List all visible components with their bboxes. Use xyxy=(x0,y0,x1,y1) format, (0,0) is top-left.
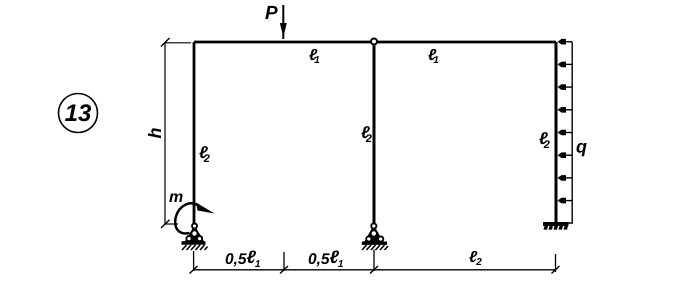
dim witness under P xyxy=(283,252,285,271)
moment m arc xyxy=(175,203,214,234)
svg-text:0,5ℓ1: 0,5ℓ1 xyxy=(225,247,261,270)
dimension h line xyxy=(164,42,166,224)
svg-text:h: h xyxy=(145,128,165,139)
svg-text:q: q xyxy=(576,137,587,157)
node label 13 circle xyxy=(59,94,98,133)
svg-text:P: P xyxy=(265,3,278,24)
dim tick top xyxy=(161,38,170,47)
load arrow 3 xyxy=(558,84,573,90)
load arrow 2 xyxy=(558,62,573,68)
dim slash right xyxy=(552,266,560,274)
force P arrow xyxy=(280,5,287,39)
column right xyxy=(555,42,558,223)
support right (fixed) xyxy=(543,224,569,230)
dim witness at middle support xyxy=(373,250,375,272)
load arrow 4 xyxy=(558,107,573,113)
svg-text:0,5ℓ1: 0,5ℓ1 xyxy=(308,247,344,270)
svg-text:m: m xyxy=(169,189,183,206)
beam top (l1 spans) xyxy=(194,41,556,44)
dim tick bottom xyxy=(161,220,170,228)
load arrow 8 xyxy=(558,198,573,204)
load arrow 7 xyxy=(558,175,573,181)
dim slash mid1 xyxy=(280,266,288,274)
column left xyxy=(193,42,196,223)
dimension h extension top xyxy=(165,42,191,44)
support middle (pin) xyxy=(362,223,388,250)
dimension h extension bottom xyxy=(165,223,178,225)
dim slash left xyxy=(190,266,198,274)
dim witness at left support xyxy=(193,251,195,271)
distributed load q line xyxy=(567,42,572,223)
dim slash mid2 xyxy=(370,266,378,274)
load arrow 5 xyxy=(558,130,573,136)
support left (pin) xyxy=(182,224,208,251)
column middle xyxy=(373,46,376,224)
load arrow 6 xyxy=(558,152,573,158)
bottom dimension line xyxy=(194,269,556,271)
dim witness at right xyxy=(555,254,557,272)
hinge at top of middle column xyxy=(371,39,377,45)
load arrow 1 xyxy=(558,39,573,45)
svg-text:13: 13 xyxy=(65,100,92,127)
